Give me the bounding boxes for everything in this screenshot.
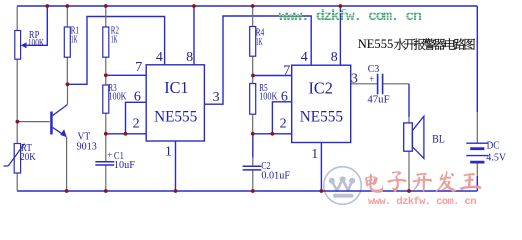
svg-text:9013: 9013 [77, 141, 97, 152]
svg-text:1K: 1K [111, 34, 118, 46]
svg-text:IC1: IC1 [164, 78, 188, 97]
svg-text:2: 2 [280, 117, 287, 132]
svg-text:+: + [369, 74, 374, 84]
svg-text:4: 4 [156, 50, 163, 65]
svg-text:2: 2 [133, 117, 140, 132]
svg-text:3: 3 [213, 90, 220, 105]
svg-text:47uF: 47uF [367, 93, 389, 105]
svg-text:6: 6 [281, 89, 288, 104]
svg-text:BL: BL [432, 133, 445, 145]
svg-text:1: 1 [165, 145, 172, 160]
svg-text:4.5V: 4.5V [486, 153, 506, 164]
svg-text:IC2: IC2 [309, 79, 333, 98]
svg-text:NE555: NE555 [300, 109, 343, 126]
svg-text:8: 8 [331, 50, 338, 65]
svg-text:20K: 20K [20, 152, 36, 163]
svg-text:+: + [107, 150, 112, 160]
svg-text:NE555: NE555 [154, 109, 197, 126]
svg-text:1K: 1K [71, 34, 78, 46]
svg-text:1K: 1K [256, 36, 263, 48]
svg-text:0.01uF: 0.01uF [261, 170, 290, 182]
svg-text:10uF: 10uF [114, 159, 135, 171]
svg-text:www. dzkfw. com. cn: www. dzkfw. com. cn [368, 196, 477, 208]
svg-text:www. dzkfw. com. cn: www. dzkfw. com. cn [279, 8, 423, 25]
svg-text:1: 1 [311, 147, 318, 162]
svg-text:8: 8 [186, 50, 193, 65]
svg-text:3: 3 [351, 71, 358, 86]
svg-text:NE555: NE555 [358, 36, 394, 51]
svg-text:100K: 100K [108, 91, 126, 103]
svg-text:7: 7 [135, 60, 142, 75]
svg-text:DC: DC [487, 140, 500, 151]
svg-text:100K: 100K [259, 91, 277, 103]
svg-text:100K: 100K [28, 38, 45, 49]
svg-text:7: 7 [283, 63, 290, 78]
svg-text:4: 4 [301, 50, 308, 65]
svg-text:6: 6 [134, 89, 141, 104]
